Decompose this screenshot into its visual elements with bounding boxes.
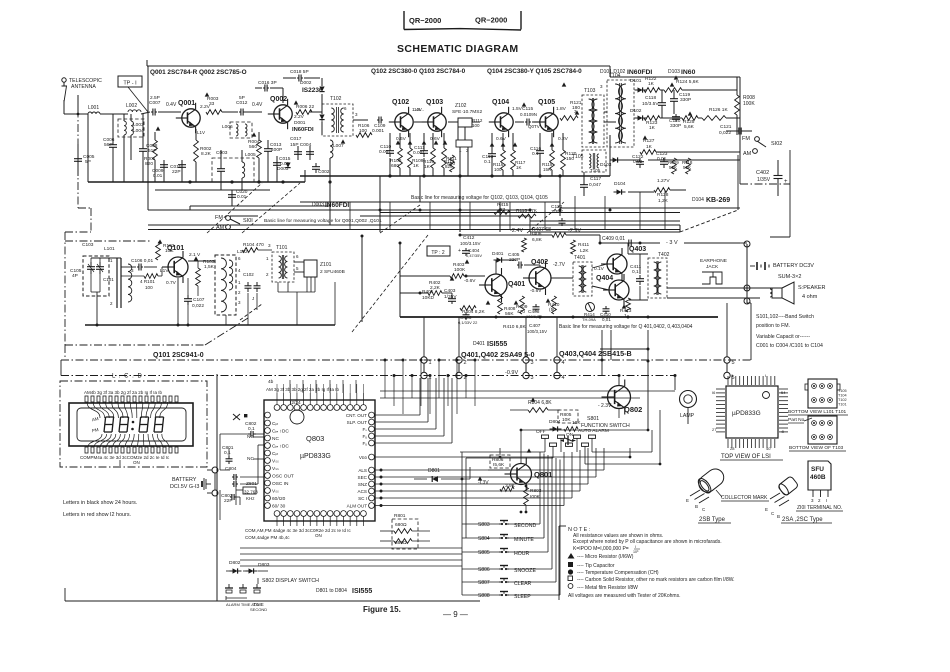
svg-text:60/I20: 60/I20 [272, 496, 286, 502]
svg-text:QR−2000: QR−2000 [475, 16, 507, 25]
ic right pin circles [369, 412, 375, 418]
svg-text:330P: 330P [680, 97, 691, 103]
svg-text:BATTERY DC3V: BATTERY DC3V [773, 263, 814, 269]
svg-text:E: E [765, 507, 768, 512]
svg-text:C106 0,01: C106 0,01 [131, 258, 153, 264]
resistor R111 680 [442, 148, 447, 168]
svg-text:15K: 15K [543, 167, 551, 172]
svg-text:ON: ON [133, 460, 140, 465]
svg-text:C002: C002 [318, 169, 330, 175]
header bracket QR-2000 [403, 11, 405, 30]
wire audio to clock vertical [600, 348, 648, 350]
svg-text:0,022: 0,022 [192, 303, 204, 309]
transistor Q104 [489, 107, 513, 137]
svg-text:460B: 460B [810, 474, 826, 481]
wire Q102 to Q103 [414, 121, 427, 123]
wire bundle ic top to buses [289, 380, 291, 393]
svg-text:680Ω: 680Ω [395, 522, 407, 528]
radio board bottom-right dash boundary [530, 231, 680, 233]
transformer T402 [648, 258, 667, 298]
if transformer T103 [582, 95, 604, 147]
wire right border to battery col [739, 160, 741, 184]
dashed diagonal boundary if [527, 202, 564, 233]
svg-text:T402: T402 [658, 252, 670, 258]
svg-text:IN60FDI: IN60FDI [627, 69, 652, 76]
svg-text:L101: L101 [104, 246, 115, 252]
svg-text:COM,4adge PM 4b,4c: COM,4adge PM 4b,4c [245, 535, 290, 540]
speaker SP401 [772, 288, 782, 298]
wire drops radio to lower sections [147, 66, 149, 210]
resistor R113 820 [450, 155, 455, 172]
svg-text:C118: C118 [645, 95, 656, 101]
svg-text:T105: T105 [590, 168, 601, 173]
if transformer T105 [582, 150, 606, 172]
svg-text:— 9 —: — 9 — [443, 610, 468, 619]
svg-text:5P: 5P [239, 95, 245, 101]
svg-text:560: 560 [249, 144, 257, 150]
thermistor R414 TH-09A [586, 303, 595, 312]
svg-text:S807: S807 [478, 580, 490, 586]
transformer T401 [573, 262, 592, 296]
svg-text:KB-269: KB-269 [706, 197, 730, 204]
svg-text:- 2.3V: - 2.3V [598, 403, 612, 409]
svg-text:T105: T105 [838, 389, 847, 393]
svg-text:3: 3 [355, 112, 358, 117]
svg-text:L1V: L1V [160, 268, 169, 274]
svg-text:4I: 4I [781, 429, 784, 434]
svg-text:0.0109N: 0.0109N [520, 112, 537, 117]
svg-text:Q401: Q401 [508, 281, 525, 288]
svg-text:-I.3V: -I.3V [478, 480, 489, 486]
svg-text:2SB Type: 2SB Type [699, 517, 726, 523]
svg-text:Basic line for measuring volta: Basic line for measuring voltage for Q 4… [559, 324, 693, 330]
svg-text:IN60: IN60 [681, 69, 696, 76]
junction dots audio [465, 275, 468, 278]
wire verticals above ic right [384, 360, 386, 398]
transistor Q001 [176, 103, 200, 133]
svg-text:K=IPOO M=I,000,000 P=: K=IPOO M=I,000,000 P= [573, 546, 629, 552]
lcd display body [69, 403, 193, 446]
svg-text:SC I: SC I [358, 496, 367, 501]
ic top pin circles [274, 405, 280, 411]
svg-text:L002: L002 [126, 103, 137, 109]
svg-text:6: 6 [296, 254, 299, 259]
svg-text:0.6V: 0.6V [430, 136, 441, 142]
svg-text:Q104 2SC380-Y Q105 2SC784-0: Q104 2SC380-Y Q105 2SC784-0 [487, 68, 582, 75]
svg-text:Part No: Part No [788, 417, 805, 423]
svg-text:FM: FM [742, 136, 750, 142]
clock board bottom border [65, 600, 480, 602]
capacitor C116 0.1 [539, 147, 541, 151]
wire am top [121, 257, 160, 259]
svg-text:L102: L102 [237, 249, 248, 255]
resistor R801 R802 680 [392, 519, 418, 549]
svg-text:Q403: Q403 [629, 246, 646, 253]
svg-text:C102: C102 [243, 272, 254, 277]
note legend temperature compensation [568, 569, 573, 574]
wire q101 base [162, 266, 168, 268]
svg-text:C107: C107 [193, 297, 205, 303]
svg-text:22P: 22P [224, 498, 233, 504]
svg-text:T103: T103 [584, 88, 596, 94]
ceramic filter Z101 SFU460B [304, 260, 317, 277]
svg-text:-0.6V: -0.6V [530, 288, 542, 294]
svg-text:Basic line for measuring volta: Basic line for measuring voltage for Q10… [411, 195, 548, 201]
wire q001 collector to coupling [222, 111, 238, 113]
svg-text:2: 2 [238, 290, 241, 295]
svg-text:C103: C103 [82, 242, 94, 248]
capacitor C013 400P [267, 144, 269, 149]
svg-text:Fₛ: Fₛ [362, 427, 367, 432]
svg-text:5: 5 [296, 266, 299, 271]
svg-text:T102: T102 [838, 398, 847, 402]
svg-text:3: 3 [268, 243, 271, 248]
svg-text:AM: AM [91, 416, 99, 422]
svg-text:L001: L001 [88, 105, 99, 111]
svg-text:Q101 2SC941-0: Q101 2SC941-0 [153, 352, 204, 359]
svg-text:2SA ,2SC Type: 2SA ,2SC Type [782, 517, 823, 523]
radio board bottom dash-dot border [65, 231, 91, 233]
note block border [558, 526, 560, 600]
svg-text:OSC IN: OSC IN [272, 481, 289, 487]
svg-text:AM: AM [743, 151, 752, 157]
svg-text:Z102: Z102 [455, 103, 467, 109]
lcd outer dash-dot box [60, 381, 207, 467]
svg-text:L005: L005 [245, 152, 256, 158]
svg-text:R126 1K: R126 1K [709, 107, 728, 113]
capacitor C007 2.5P [151, 111, 153, 113]
svg-text:D803: D803 [258, 562, 270, 568]
wire T102 to Q102 [353, 119, 368, 121]
svg-text:C117: C117 [590, 176, 601, 182]
svg-text:AM: AM [216, 225, 225, 231]
svg-text:1: 1 [266, 256, 269, 261]
am board dash-dot outline [64, 232, 66, 345]
wire bundle above switches [540, 451, 564, 453]
svg-text:54: 54 [781, 390, 786, 395]
wire q101 emitter drop [177, 278, 179, 325]
clock battery connectors [212, 467, 218, 473]
svg-text:2: 2 [110, 301, 113, 306]
svg-text:Cᵢₙ: Cᵢₙ [272, 421, 278, 427]
capacitor C111 0.001 [423, 147, 425, 151]
svg-text:C017: C017 [290, 136, 302, 142]
resistor R120 150 [561, 150, 566, 170]
svg-text:C101: C101 [103, 277, 114, 282]
svg-text:2: 2 [818, 498, 821, 503]
svg-text:3: 3 [531, 360, 534, 366]
svg-text:COLLECTOR MARK: COLLECTOR MARK [721, 495, 768, 501]
svg-text:TP - I: TP - I [123, 81, 137, 87]
radio board top border [146, 60, 148, 66]
svg-text:---- Tip Capacitor: ---- Tip Capacitor [577, 563, 615, 569]
svg-text:Q101: Q101 [167, 245, 184, 252]
svg-text:R115 47K: R115 47K [516, 208, 538, 214]
test point TP-1 [118, 76, 142, 87]
svg-text:0,47/35V: 0,47/35V [466, 253, 482, 258]
svg-text:2: 2 [464, 360, 467, 366]
svg-text:D102: D102 [630, 108, 642, 114]
capacitor C011 22P [181, 161, 183, 165]
lsi top view pins [727, 376, 729, 385]
svg-text:ANTENNA: ANTENNA [71, 84, 96, 90]
note legend metal film resistor [568, 584, 573, 589]
ic bottom pin leads [276, 517, 278, 527]
svg-text:T401: T401 [574, 255, 586, 261]
transistor Q103 [422, 107, 446, 137]
osc coil L102 box [215, 255, 236, 315]
svg-text:SLP. OUT: SLP. OUT [347, 420, 368, 425]
svg-text:D804: D804 [549, 419, 561, 425]
svg-text:10K: 10K [572, 420, 581, 426]
ic left wires [220, 433, 248, 435]
svg-text:L2K: L2K [580, 248, 589, 254]
svg-text:10K: 10K [562, 417, 571, 423]
svg-text:I: I [826, 498, 827, 503]
svg-text:Q001: Q001 [178, 100, 195, 107]
svg-text:2.2V: 2.2V [294, 114, 305, 120]
svg-text:I6: I6 [712, 390, 716, 395]
svg-text:Q404: Q404 [596, 275, 613, 282]
svg-text:100: 100 [145, 285, 153, 290]
svg-text:T101: T101 [838, 403, 847, 407]
svg-text:3: 3 [600, 84, 603, 89]
svg-text:IN60FDI: IN60FDI [292, 127, 314, 133]
svg-text:1K: 1K [648, 81, 655, 87]
svg-text:3: 3 [238, 300, 241, 305]
ic bottom pin circles [274, 511, 280, 517]
lsi top view body [726, 386, 778, 438]
resistor R001 820 [153, 140, 158, 160]
transistor package 2SB [695, 466, 727, 496]
am bottom wires [277, 282, 279, 292]
svg-text:C804: C804 [225, 466, 237, 472]
svg-text:D103: D103 [668, 69, 680, 75]
svg-text:820: 820 [445, 164, 453, 169]
lcd top pin row [85, 396, 88, 402]
svg-text:ZI0I TERMINAL NO.: ZI0I TERMINAL NO. [797, 505, 842, 511]
svg-text:R410 6,8K: R410 6,8K [503, 324, 526, 330]
svg-text:60/ 30: 60/ 30 [272, 504, 286, 510]
svg-text:ALS: ALS [358, 468, 367, 473]
svg-text:28: 28 [730, 446, 735, 451]
filter SFU460B [808, 461, 831, 490]
svg-text:EARPHONE: EARPHONE [700, 258, 727, 264]
svg-text:T102: T102 [330, 96, 342, 102]
junction dots radio buses [188, 180, 191, 183]
svg-text:5,6K: 5,6K [684, 124, 695, 130]
svg-text:10KD: 10KD [422, 295, 435, 301]
connector pair 5 [724, 357, 730, 363]
svg-text:3: 3 [531, 375, 534, 381]
svg-text:4 ohm: 4 ohm [802, 294, 818, 300]
svg-text:-0.9V: -0.9V [505, 370, 518, 376]
svg-text:56P: 56P [104, 142, 113, 148]
transistor Q401 [479, 268, 507, 302]
svg-text:BOTTOM VIEW L101 T101: BOTTOM VIEW L101 T101 [788, 409, 847, 415]
svg-text:4: 4 [562, 360, 565, 366]
svg-text:TP : 2: TP : 2 [431, 250, 444, 256]
svg-text:Z101: Z101 [320, 262, 332, 268]
svg-text:6,8K: 6,8K [532, 237, 543, 243]
svg-text:32,768: 32,768 [244, 490, 258, 495]
resistor R002 8.2K [194, 140, 199, 162]
svg-text:I00K: I00K [530, 494, 541, 500]
svg-text:T101: T101 [276, 245, 288, 251]
inductor L006 [230, 122, 252, 138]
transistor Q802 [602, 380, 631, 415]
svg-text:C: C [771, 511, 775, 516]
capacitor C113 0.1 [491, 150, 493, 154]
svg-text:SUM-3×2: SUM-3×2 [778, 274, 801, 280]
svg-text:-2.9V: -2.9V [568, 228, 581, 234]
svg-text:Fᵤ: Fᵤ [362, 441, 367, 446]
svg-text:Q001 2SC784-R Q002 2SC785-O: Q001 2SC784-R Q002 2SC785-O [150, 69, 247, 76]
svg-text:OSC OUT: OSC OUT [272, 474, 294, 480]
svg-text:ALM OUT: ALM OUT [347, 504, 368, 509]
bus risers [423, 317, 425, 357]
diode D103 [613, 157, 618, 162]
svg-text:C121: C121 [720, 124, 732, 130]
svg-text:D002: D002 [300, 80, 312, 86]
clock top rails to lamp [380, 390, 672, 392]
svg-text:AUTO ALARM: AUTO ALARM [578, 428, 609, 434]
svg-text:4P: 4P [72, 273, 78, 279]
inductor L007 [330, 140, 333, 158]
wire to Q001 base [158, 111, 181, 113]
if transformer T102 [322, 104, 353, 136]
svg-text:15P C004: 15P C004 [290, 142, 312, 148]
svg-text:SEC: SEC [358, 475, 368, 480]
svg-text:ON: ON [566, 432, 574, 438]
svg-text:Q102: Q102 [392, 99, 409, 106]
svg-text:SI0I: SI0I [243, 218, 253, 224]
svg-text:4 R101: 4 R101 [140, 279, 155, 284]
svg-text:Vₛₛ: Vₛₛ [272, 459, 279, 465]
svg-text:Vₛₛ: Vₛₛ [272, 489, 279, 495]
svg-text:LAMP: LAMP [680, 413, 695, 419]
svg-text:L . C . D: L . C . D [112, 374, 143, 380]
svg-text:100/3.15V: 100/3.15V [460, 241, 481, 246]
svg-text:E: E [686, 498, 689, 503]
svg-text:COMPM4a 4c 3e 3d 3cCOM2e 2d 2c: COMPM4a 4c 3e 3d 3cCOM2e 2d 2c Ie Id Ic [80, 455, 170, 460]
svg-text:Q802: Q802 [624, 405, 642, 414]
svg-text:0,1/33V 22: 0,1/33V 22 [458, 320, 478, 325]
radio board right border [739, 77, 741, 155]
svg-text:S101,102----Band Switch: S101,102----Band Switch [756, 314, 814, 320]
audio wires [400, 275, 450, 277]
svg-text:I5,6K: I5,6K [493, 462, 505, 468]
svg-text:T104: T104 [609, 73, 621, 79]
svg-text:JACK: JACK [706, 264, 719, 270]
svg-text:L1V: L1V [197, 130, 205, 135]
svg-text:R124 5,6K: R124 5,6K [676, 79, 699, 85]
audio bottom bus [400, 316, 718, 318]
bus line 1 dash-dot [61, 359, 751, 361]
svg-text:0.1: 0.1 [532, 151, 539, 157]
svg-text:4b: 4b [268, 379, 274, 385]
diode D003 marker [285, 163, 290, 168]
resistor R117 1K [511, 150, 516, 170]
svg-text:0.001: 0.001 [413, 150, 425, 156]
transistor Q404 [603, 274, 629, 306]
resistor 3.9K [500, 487, 514, 492]
resistor R009 56K [672, 158, 677, 174]
wire q101 collector [188, 252, 190, 261]
svg-text:S:PEAKER: S:PEAKER [798, 285, 826, 291]
capacitor C110 0.001 [389, 147, 391, 151]
svg-text:0.001: 0.001 [372, 128, 384, 134]
svg-text:Cᵢₙ ↕DC: Cᵢₙ ↕DC [272, 429, 289, 435]
svg-text:C402: C402 [756, 170, 769, 176]
svg-text:1K: 1K [424, 164, 431, 170]
transistor Q403 [601, 248, 627, 280]
svg-text:Q103: Q103 [426, 99, 443, 106]
svg-text:-0.6V: -0.6V [464, 278, 476, 284]
svg-text:D401: D401 [473, 341, 485, 347]
note legend micro resistor [568, 553, 575, 559]
svg-text:C018 5P: C018 5P [290, 69, 309, 75]
svg-text:D401: D401 [492, 251, 504, 257]
svg-text:10⁶: 10⁶ [633, 550, 639, 554]
svg-text:Basic line for measuring volta: Basic line for measuring voltage for Q00… [264, 218, 382, 224]
svg-text:100/3,15V: 100/3,15V [527, 329, 547, 334]
svg-text:1: 1 [238, 280, 241, 285]
dashed diagonal boundary front-end [207, 183, 262, 233]
if transformer T104 [607, 80, 634, 147]
clock board border [216, 374, 218, 601]
svg-text:TOP VIEW OF LSI: TOP VIEW OF LSI [721, 454, 771, 460]
svg-text:KHz: KHz [246, 496, 255, 501]
svg-text:2: 2 [266, 272, 269, 277]
svg-text:S806: S806 [478, 567, 490, 573]
junction dots clock [520, 429, 523, 432]
svg-text:820: 820 [145, 161, 153, 167]
ic left pin circles [265, 412, 271, 418]
transistor Q402 [523, 261, 551, 295]
svg-text:Fᵤ: Fᵤ [362, 434, 367, 439]
resistor R109 1K [408, 148, 413, 168]
svg-text:1K: 1K [413, 163, 420, 169]
capacitor C002 trim [315, 163, 317, 167]
svg-text:33: 33 [209, 101, 215, 107]
svg-text:I: I [635, 545, 636, 549]
svg-text:Q801: Q801 [534, 470, 552, 479]
svg-text:SFE·10.7MS2: SFE·10.7MS2 [452, 109, 482, 115]
resistor R805 10K box [558, 410, 578, 423]
switch column wires [462, 523, 499, 525]
svg-text:1K: 1K [516, 165, 522, 170]
svg-text:1,5K: 1,5K [204, 264, 215, 270]
svg-text:L007: L007 [333, 143, 344, 149]
svg-text:-2.4V: -2.4V [510, 228, 523, 234]
svg-text:C001 to C004 /C101 to C104: C001 to C004 /C101 to C104 [756, 343, 823, 349]
if transformer T101 [272, 252, 294, 282]
capacitor C006 56P [112, 136, 114, 145]
svg-text:0,1: 0,1 [224, 450, 231, 456]
capacitor C015 0.01 [276, 159, 278, 163]
bottom view T103 box [808, 416, 837, 444]
svg-text:SCHEMATIC DIAGRAM: SCHEMATIC DIAGRAM [397, 43, 519, 55]
svg-text:2.1 V: 2.1 V [189, 252, 201, 258]
svg-text:100: 100 [494, 167, 502, 172]
am bottom bus [85, 324, 335, 326]
wires below ic [240, 547, 462, 549]
transistor Q102 [389, 107, 413, 137]
svg-text:PM: PM [91, 427, 99, 433]
ic mark x [233, 414, 240, 420]
resistor R108 680 [398, 148, 403, 168]
